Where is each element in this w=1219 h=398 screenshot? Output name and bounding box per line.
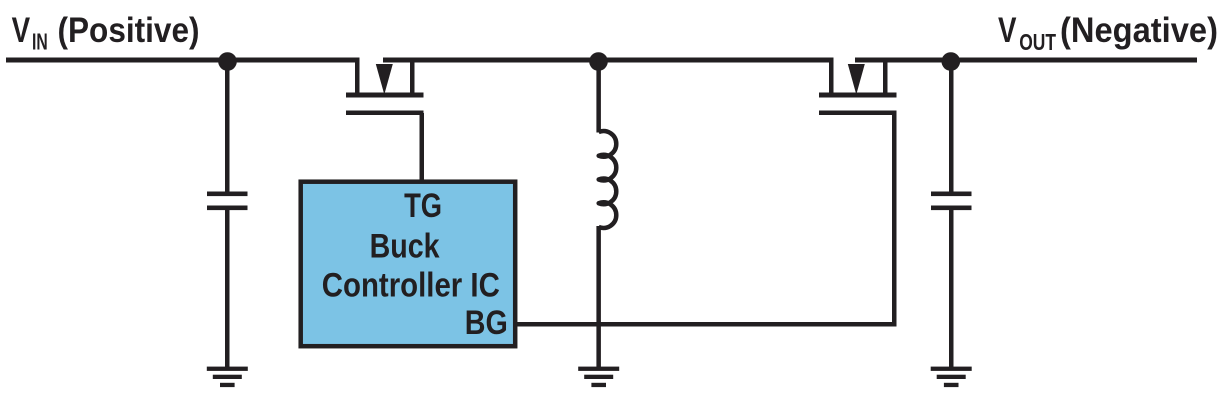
svg-text:V: V: [998, 11, 1017, 50]
capacitor CIN: top plate: [207, 192, 248, 197]
svg-text:Controller IC: Controller IC: [322, 267, 500, 305]
controller IC U1 (buck controller) box: [301, 182, 516, 347]
wire Q2 gate drop to BG line: [892, 113, 897, 327]
svg-text:TG: TG: [404, 187, 442, 225]
node junction dot: switch node / inductor: [589, 52, 608, 71]
svg-text:BG: BG: [465, 304, 508, 342]
wire top rail middle segment (Q1 source to Q2 drain): [383, 58, 834, 63]
transistor Q1: channel bar: [346, 93, 424, 98]
capacitor CIN: top lead wire: [225, 60, 230, 192]
node junction dot: output rail / COUT: [942, 52, 961, 71]
svg-text:IN: IN: [32, 29, 48, 55]
svg-text:(Negative): (Negative): [1060, 11, 1218, 50]
transistor Q2 (synchronous PMOS): drain stub: [829, 58, 834, 93]
wire top rail right segment (Q2 source to VOUT): [855, 58, 1197, 63]
transistor Q2: gate bar: [819, 111, 897, 116]
wire switch node down to inductor L1: [596, 60, 601, 133]
transistor Q2: source arrow: [848, 64, 865, 95]
transistor Q2: channel bar: [819, 93, 897, 98]
transistor Q1 (top-gate PMOS): drain stub: [355, 58, 360, 93]
transistor Q2: source stub: [883, 58, 888, 93]
ground symbol (below L1): [578, 367, 619, 387]
svg-text:OUT: OUT: [1019, 29, 1056, 55]
node junction dot: input rail / CIN: [218, 52, 237, 71]
capacitor CIN: bottom plate: [207, 206, 248, 211]
svg-text:Buck: Buck: [370, 228, 441, 266]
capacitor COUT: bottom lead wire: [949, 210, 954, 368]
capacitor COUT: bottom plate: [931, 206, 972, 211]
wire inductor L1 to ground: [596, 226, 601, 368]
inductor L1: [599, 131, 617, 228]
ground symbol (below CIN): [207, 367, 248, 387]
capacitor CIN: bottom lead wire: [225, 210, 230, 368]
wire BG pin to Q2 gate: [515, 322, 897, 327]
svg-text:(Positive): (Positive): [58, 11, 200, 50]
svg-text:V: V: [12, 11, 31, 50]
transistor Q1: source stub: [410, 58, 415, 93]
wire top rail left segment (VIN to Q1 drain): [6, 58, 360, 63]
capacitor COUT: top plate: [931, 192, 972, 197]
capacitor COUT: top lead wire: [949, 60, 954, 192]
ground symbol (below COUT): [931, 367, 972, 387]
wire Q1 gate to TG pin: [420, 113, 425, 181]
transistor Q1: gate bar: [346, 111, 424, 116]
transistor Q1: source arrow: [376, 64, 393, 95]
